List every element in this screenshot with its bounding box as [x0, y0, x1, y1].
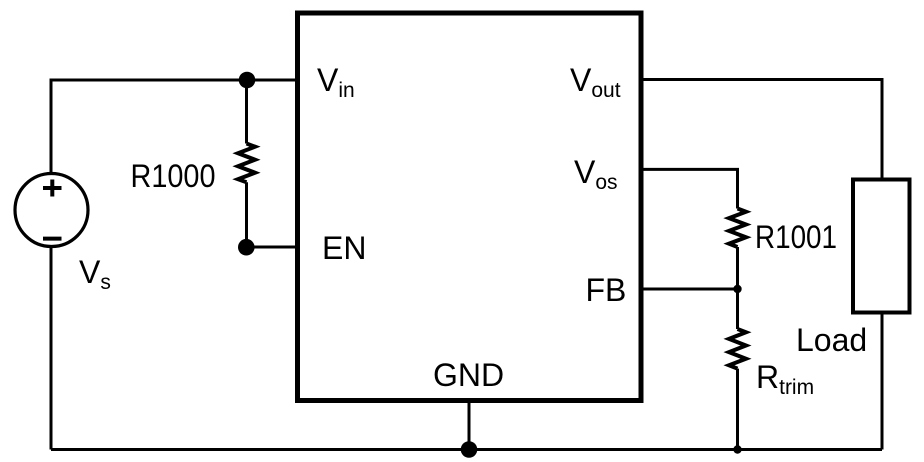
resistor Rtrim [729, 329, 746, 369]
wire Vs bottom to ground rail [50, 247, 53, 450]
resistor R1001 [729, 209, 746, 248]
wire GND pin down [468, 400, 471, 450]
svg-text:FB: FB [586, 272, 627, 308]
svg-text:EN: EN [322, 230, 366, 266]
wire R1000 top lead [245, 80, 248, 144]
svg-text:GND: GND [433, 357, 504, 393]
node junction dot Vin [239, 72, 256, 89]
svg-text:Vin: Vin [317, 62, 355, 102]
voltage source V_s [15, 174, 88, 247]
node junction dot EN [238, 239, 255, 256]
resistor R1000 [238, 144, 255, 183]
svg-text:Vos: Vos [574, 154, 618, 194]
wire R1001 bottom to FB node [736, 247, 739, 289]
node junction dot Rtrim-ground [733, 445, 741, 453]
wire FB pin to node [641, 288, 738, 291]
wire R1000 bottom lead to EN [247, 182, 298, 247]
wire Vos to R1001 top [641, 169, 738, 208]
svg-text:Rtrim: Rtrim [756, 359, 814, 399]
node junction dot FB [733, 285, 741, 293]
svg-text:R1000: R1000 [131, 158, 216, 194]
regulator IC U1 [298, 13, 642, 401]
minus symbol [43, 237, 62, 241]
wire Rtrim bottom to ground rail [736, 369, 739, 450]
wire bottom ground rail [51, 448, 882, 451]
wire load bottom to ground rail [881, 315, 884, 450]
node junction dot GND [461, 441, 478, 458]
wire FB node to Rtrim top [736, 289, 739, 329]
svg-text:Vs: Vs [79, 254, 111, 294]
load resistor block [853, 180, 910, 313]
svg-text:R1001: R1001 [755, 219, 837, 255]
svg-text:Vout: Vout [570, 62, 621, 102]
svg-text:Load: Load [796, 322, 867, 358]
plus symbol [43, 180, 62, 197]
wire Vs top to Vin [51, 80, 297, 173]
wire Vout to load top [641, 80, 882, 178]
